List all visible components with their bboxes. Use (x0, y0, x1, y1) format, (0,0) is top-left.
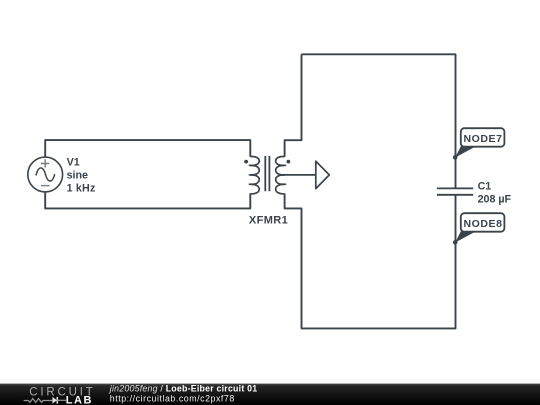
footer logo LAB (66, 394, 93, 405)
wire top rail right (302, 54, 456, 188)
voltage source V1 (28, 157, 63, 192)
transformer XFMR1 primary coil (249, 156, 260, 193)
capacitor C1 (437, 188, 473, 194)
svg-text:http://circuitlab.com/c2pxf78: http://circuitlab.com/c2pxf78 (110, 394, 235, 404)
svg-text:XFMR1: XFMR1 (249, 214, 288, 226)
svg-text:1 kHz: 1 kHz (67, 182, 96, 194)
primary phase dot (244, 160, 248, 164)
wire secondary tap (279, 174, 316, 176)
svg-text:V1: V1 (67, 156, 80, 168)
svg-text:sine: sine (67, 169, 88, 181)
svg-text:jin2005feng / Loeb-Eiber circu: jin2005feng / Loeb-Eiber circuit 01 (109, 384, 258, 394)
label XFMR1 (249, 214, 288, 226)
secondary phase dot (287, 160, 291, 164)
label V1 value (67, 156, 96, 194)
svg-text:NODE8: NODE8 (464, 218, 503, 230)
footer logo diode (52, 397, 66, 404)
transformer core (265, 156, 269, 191)
footer title line (109, 384, 258, 404)
annotation arrow (316, 161, 330, 188)
footer logo CIRCUIT (29, 387, 95, 399)
wire secondary top jog (285, 54, 302, 157)
label C1 value (478, 180, 512, 205)
wire primary bottom rail (45, 192, 250, 209)
transformer XFMR1 secondary coil (276, 156, 287, 193)
footer logo resistor zigzag (24, 399, 53, 403)
svg-text:C1: C1 (478, 180, 492, 192)
wire primary top rail (45, 140, 250, 157)
footer bar (0, 384, 540, 405)
svg-text:LAB: LAB (66, 394, 93, 405)
svg-text:NODE7: NODE7 (464, 133, 503, 145)
node NODE8 (453, 213, 504, 245)
svg-text:208 µF: 208 µF (478, 194, 512, 206)
wire right lower / bottom rail (285, 194, 456, 329)
node NODE7 (453, 128, 504, 160)
